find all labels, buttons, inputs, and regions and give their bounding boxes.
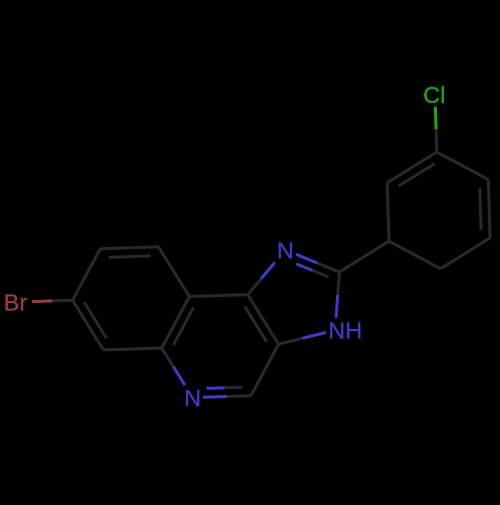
bond C9b-N1: [248, 279, 262, 295]
bond C3p-Cl: [435, 129, 439, 152]
bond C7-C8: [73, 249, 101, 300]
svg-text:N: N: [277, 238, 294, 264]
bond C4p-C5p=: [488, 180, 490, 238]
bond C1p-C2p: [387, 183, 389, 241]
bond C2p-C3p=: [387, 152, 437, 183]
svg-text:Cl: Cl: [423, 82, 445, 108]
bond C3a-C4: [251, 344, 279, 396]
bond C7-Br: [52, 299, 72, 303]
bond C5p-C6p: [441, 238, 491, 269]
bond C8-C9=: [100, 247, 158, 249]
bond N3-C3a: [302, 333, 326, 339]
bond C9-C9a: [159, 247, 190, 297]
svg-text:N: N: [184, 385, 201, 411]
bond C5a-C9a=: [162, 297, 190, 349]
bond C4-N5=: [227, 394, 251, 398]
bond C6p-C1p: [389, 241, 441, 269]
bond C6-C7=: [73, 300, 104, 350]
bond C3p-C4p: [437, 152, 489, 180]
bond C2-N3: [338, 272, 340, 295]
svg-text:Br: Br: [4, 290, 28, 316]
bond N1-C2=: [296, 254, 318, 263]
bond C9a-C9b: [189, 295, 247, 297]
bond C3a-C9b=: [248, 295, 279, 345]
bond N5-C5a: [173, 367, 185, 386]
svg-text:NH: NH: [328, 318, 362, 344]
bond C2-C1p: [339, 241, 389, 272]
bond C5a-C6: [103, 348, 161, 350]
